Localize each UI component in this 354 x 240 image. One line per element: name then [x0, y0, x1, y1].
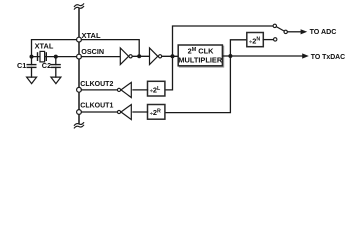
svg-text:TO TxDAC: TO TxDAC	[311, 54, 345, 61]
wire multiplier node to divider 2R (down and left)	[165, 56, 231, 113]
wire U3 to CLKOUT2 pin	[81, 89, 117, 91]
inverter U3	[121, 82, 131, 97]
switch arm	[276, 27, 284, 31]
pin CLKOUT1	[77, 110, 82, 115]
wire XTAL net top (pin to left corner)	[32, 40, 77, 57]
inverter U4	[121, 105, 131, 120]
node multiplier output	[228, 54, 232, 58]
break symbol bottom	[74, 123, 83, 128]
svg-text:2M CLK: 2M CLK	[188, 46, 215, 55]
svg-text:MULTIPLIER: MULTIPLIER	[178, 55, 222, 64]
wire U4 to CLKOUT1 pin	[81, 111, 117, 113]
pin XTAL	[77, 37, 82, 42]
divider box 2N	[247, 33, 263, 47]
svg-text:XTAL: XTAL	[35, 42, 54, 51]
wire crystal line (left junction to OSCIN pin)	[32, 56, 77, 58]
switch contact direct	[273, 24, 276, 27]
wire switch to ADC arrow	[287, 31, 301, 33]
node after U1	[137, 54, 141, 58]
wire direct clock to switch (up and right)	[173, 26, 274, 56]
wire multiplier output	[223, 55, 230, 57]
svg-text:CLKOUT2: CLKOUT2	[80, 81, 113, 88]
break symbol top	[74, 4, 83, 9]
capacitor C1	[27, 57, 36, 78]
node junction C1	[30, 55, 34, 59]
capacitor C2	[52, 57, 61, 78]
clock multiplier box	[179, 46, 223, 67]
node after U2	[171, 54, 175, 58]
svg-text:C2: C2	[42, 61, 51, 70]
divider box 2L	[148, 81, 165, 96]
node junction C2	[54, 55, 58, 59]
wire 2L to inverter U3	[133, 89, 148, 91]
wire multiplier output to TxDAC arrow	[230, 55, 302, 57]
switch pole	[284, 30, 287, 33]
pin OSCIN	[77, 54, 82, 59]
wire U1 output to node	[132, 55, 149, 57]
switch contact divided	[274, 38, 277, 41]
inverter U2	[150, 48, 158, 65]
ground (C1)	[27, 77, 37, 84]
wire node to divider 2L (down and left)	[165, 56, 173, 90]
ground (C2)	[51, 77, 61, 84]
divider box 2R	[148, 105, 165, 120]
svg-text:OSCIN: OSCIN	[81, 47, 104, 56]
svg-text:C1: C1	[17, 61, 26, 70]
arrowhead TO TxDAC	[302, 53, 309, 58]
wire feedback to XTAL pin	[81, 40, 139, 57]
wire U2 output to multiplier	[162, 55, 179, 57]
wire 2R to inverter U4	[133, 111, 148, 113]
wire to divider 2N	[230, 40, 246, 56]
svg-text:TO ADC: TO ADC	[310, 28, 337, 36]
IC boundary edge line	[78, 9, 80, 124]
wire 2N output to switch contact	[263, 39, 273, 41]
pin CLKOUT2	[77, 87, 82, 92]
inverter U1	[120, 48, 128, 65]
svg-text:XTAL: XTAL	[82, 31, 101, 40]
svg-text:CLKOUT1: CLKOUT1	[80, 102, 113, 109]
arrowhead TO ADC	[301, 29, 308, 34]
crystal XTAL body	[40, 51, 45, 62]
crystal XTAL plates	[37, 53, 39, 60]
wire OSCIN to inverter U1	[81, 56, 119, 58]
